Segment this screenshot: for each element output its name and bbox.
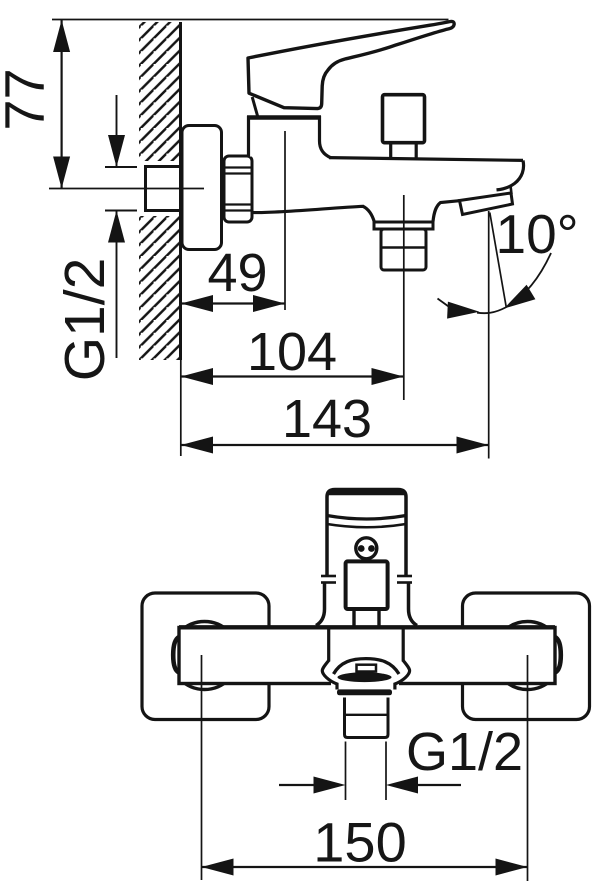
- outlet thread line: [382, 246, 425, 248]
- dimension 77 arrow down: [53, 157, 70, 189]
- right union nut circle: [494, 622, 562, 690]
- dimension 150 arrow left: [202, 859, 234, 876]
- shower outlet flange (side): [374, 222, 433, 229]
- housing centerline / 49 extension: [284, 131, 286, 310]
- dimension 143 arrow right: [457, 437, 489, 454]
- stub top tick: [105, 166, 137, 168]
- knob stem right (front): [377, 611, 380, 626]
- spout bell left side: [327, 629, 330, 662]
- aerator ellipse (front): [338, 672, 392, 682]
- 150 right extension: [527, 655, 529, 881]
- top reference line (77 dim): [52, 19, 449, 21]
- svg-text:49: 49: [207, 243, 267, 303]
- dimension 104 arrow right: [372, 368, 404, 385]
- svg-text:G1/2: G1/2: [53, 258, 117, 382]
- right split tick bottom: [397, 581, 412, 584]
- svg-text:77: 77: [0, 68, 56, 130]
- stub bottom tick: [105, 210, 137, 212]
- knob stem left: [389, 143, 392, 158]
- left split tick bottom: [321, 581, 336, 584]
- 150 left extension: [201, 655, 203, 880]
- dimension 104 line: [181, 375, 404, 377]
- svg-text:10°: 10°: [496, 203, 579, 265]
- indicator dot right: [368, 545, 375, 552]
- left split tick top: [321, 575, 336, 578]
- body barrel (front): [179, 628, 555, 684]
- diverter knob (side): [383, 95, 425, 143]
- lever handle: [248, 21, 454, 108]
- right end bulge: [555, 637, 561, 673]
- horizontal centerline of supply: [49, 188, 204, 190]
- spout bell interior mask: [331, 676, 399, 690]
- handle lower curve 1: [327, 516, 406, 520]
- 10 deg left tail: [438, 299, 453, 310]
- 10 deg vertical reference: [488, 211, 490, 459]
- left wall rosette: [142, 593, 269, 720]
- knob stem left (front): [352, 611, 355, 626]
- svg-text:104: 104: [247, 322, 337, 382]
- wall flange (rosette side view): [182, 126, 222, 250]
- svg-text:150: 150: [313, 811, 406, 874]
- right split tick top: [397, 575, 412, 578]
- outlet thread line (front): [346, 714, 387, 716]
- G1/2 bottom arrow left-pointing: [386, 777, 418, 794]
- dimension 143 arrow left: [181, 437, 213, 454]
- svg-text:143: 143: [282, 389, 372, 449]
- 10 deg slanted line: [490, 213, 507, 308]
- wall hatching upper: [139, 22, 180, 161]
- outlet cylinder (front): [345, 698, 389, 738]
- aerator (10 deg tilted): [460, 193, 513, 215]
- right wall rosette: [463, 593, 590, 720]
- wall hatching lower: [139, 216, 180, 360]
- spout bell left wing wall: [322, 661, 337, 690]
- G1/2 bottom right tail: [418, 784, 461, 786]
- dimension 77 line: [60, 20, 62, 189]
- handle top thick edge: [329, 490, 404, 495]
- dimension 49 line: [181, 302, 285, 304]
- nut facet line 1: [225, 166, 251, 168]
- outlet right extension: [385, 742, 387, 801]
- base column right side: [409, 583, 418, 626]
- dimension 77 arrow up: [53, 20, 70, 52]
- 10 deg arc: [477, 253, 551, 313]
- G1/2 upper leader arrow (down): [108, 135, 125, 167]
- connection hex nut: [224, 156, 252, 222]
- handle lower curve 2: [327, 524, 406, 527]
- G1/2 upper leader line: [116, 95, 118, 167]
- spout beak end: [497, 161, 524, 190]
- lever skirt edge: [252, 97, 258, 117]
- knob stem right: [415, 143, 418, 158]
- spout bell right side: [402, 629, 405, 662]
- nut facet line 3: [225, 203, 251, 205]
- spout bell rim arc: [334, 659, 400, 674]
- outlet centerline / 104 extension: [403, 195, 405, 400]
- 10 deg arc arrowhead right: [504, 285, 535, 309]
- dimension 150 arrow right: [496, 859, 528, 876]
- G1/2 lower leader line: [116, 211, 118, 359]
- collar bar: [337, 689, 392, 695]
- dimension 143 line: [181, 444, 489, 446]
- indicator dot left: [358, 545, 365, 552]
- outlet left extension: [345, 742, 347, 801]
- G1/2 bottom left tail: [279, 784, 316, 786]
- base column left side: [316, 583, 325, 626]
- barrel top thick edge: [179, 625, 555, 629]
- shower outlet body (side): [381, 229, 426, 270]
- left union nut circle: [171, 622, 239, 690]
- barrel bottom edge: [252, 206, 374, 222]
- handle (front): [327, 490, 406, 577]
- nut facet line 2: [225, 172, 251, 174]
- wall face extension line (for 49/104/143 dims): [180, 360, 182, 456]
- dimension 150 line: [202, 866, 528, 868]
- indicator circle: [356, 538, 377, 559]
- housing top thick edge: [247, 115, 321, 120]
- spout beak step: [511, 186, 512, 195]
- G1/2 bottom arrow right-pointing: [314, 777, 346, 794]
- dimension 104 arrow left: [181, 368, 213, 385]
- 10 deg arc arrowhead left: [447, 302, 479, 319]
- supply stub in wall: [146, 167, 181, 211]
- svg-text:G1/2: G1/2: [406, 722, 523, 782]
- G1/2 lower leader arrow (up): [108, 211, 125, 243]
- cartridge housing: [249, 118, 332, 158]
- dimension 49 arrow left: [181, 295, 213, 312]
- diverter knob (front): [346, 561, 388, 609]
- spout notch: [357, 665, 377, 672]
- wall face line: [179, 22, 182, 360]
- valve barrel top edge: [329, 158, 523, 161]
- spout underside: [433, 201, 460, 222]
- spout bell right wing wall: [395, 661, 410, 690]
- dimension 49 arrow right: [253, 295, 285, 312]
- left end bulge: [173, 637, 179, 673]
- nut facet line 4: [225, 209, 251, 211]
